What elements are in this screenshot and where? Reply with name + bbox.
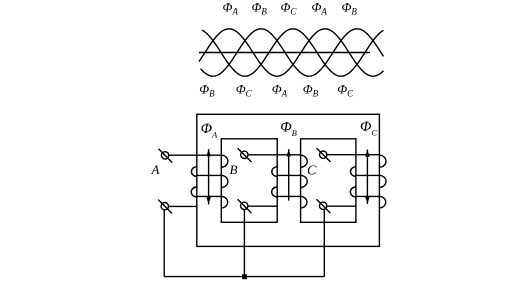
wire flux waveform phase C — [202, 29, 384, 76]
terminal phase A lower (circle with slash) — [158, 200, 172, 214]
wire phase B top feed — [248, 154, 301, 156]
coil middle limb left arcs — [272, 167, 278, 197]
wire phase A top feed — [169, 154, 222, 156]
coil left limb left arcs — [191, 167, 197, 197]
wire phase A down lead — [163, 210, 165, 277]
core left window — [221, 139, 277, 223]
flux arrow PhiA (left limb, double-headed) — [206, 149, 210, 204]
terminal phase B lower (circle with slash) — [238, 199, 252, 213]
wire right limb winding crossing bottom — [356, 195, 380, 197]
junction dot neutral — [242, 274, 247, 279]
wire phase B down lead — [243, 210, 245, 277]
wire left limb winding crossing bottom — [197, 195, 222, 197]
core right window — [301, 139, 356, 223]
svg-text:B: B — [230, 162, 238, 177]
node time-axis — [199, 52, 370, 54]
wire middle limb winding crossing mid — [277, 174, 300, 176]
svg-text:C: C — [307, 164, 317, 179]
coil middle limb right arcs — [301, 155, 308, 208]
wire middle limb winding crossing bottom — [277, 195, 300, 197]
coil right limb right arcs — [379, 155, 386, 208]
wire phase B bottom feed — [248, 205, 277, 207]
wire left limb winding crossing mid — [197, 174, 222, 176]
coil right limb left arcs — [350, 167, 356, 197]
wire flux waveform phase A — [199, 29, 384, 76]
transformer core outer outline — [197, 114, 380, 246]
flux arrow PhiB (middle limb) — [287, 149, 291, 200]
wire phase C down lead — [323, 210, 325, 277]
terminal phase B upper (circle with slash) — [238, 148, 252, 162]
wire neutral bus bottom — [164, 276, 324, 278]
terminal phase C upper (circle with slash) — [317, 148, 331, 162]
wire right limb winding crossing mid — [356, 174, 380, 176]
wire phase C top feed — [327, 154, 380, 156]
coil left limb right arcs — [221, 155, 228, 208]
svg-text:A: A — [151, 162, 160, 177]
wire flux waveform phase B — [201, 29, 384, 76]
wire phase A bottom feed — [169, 205, 197, 207]
terminal phase C lower (circle with slash) — [317, 199, 331, 213]
wire phase C bottom feed — [327, 205, 356, 207]
flux arrow PhiC (right limb, double-headed) — [365, 150, 369, 205]
terminal phase A upper (circle with slash) — [159, 149, 173, 163]
